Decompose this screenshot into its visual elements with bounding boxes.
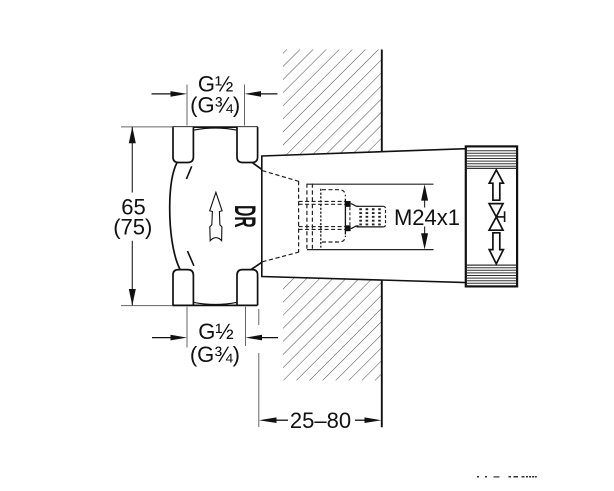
M24 thread top edge	[357, 205, 384, 207]
hidden bonnet thread scallop line	[320, 189, 322, 248]
25-80 right arrowhead	[365, 417, 382, 423]
G1/2 bottom: right arrow	[246, 335, 263, 341]
svg-text:(G¾): (G¾)	[190, 342, 240, 367]
G1/2 bottom: left arrow	[152, 337, 172, 339]
25-80 left arrowhead	[259, 417, 277, 423]
thread crest dashes	[361, 208, 380, 225]
svg-text:G½: G½	[198, 319, 233, 344]
M24x1 top reference line	[307, 183, 434, 185]
65(75) down arrowhead	[129, 289, 136, 306]
G1/2 top: right extension line	[244, 85, 246, 126]
flow direction arrow inside body	[210, 192, 222, 240]
M24 thread bottom edge	[357, 226, 384, 228]
hidden flange disc verticals	[306, 184, 308, 249]
25-80 dimension line left segment	[276, 419, 288, 421]
valve body left contour	[170, 163, 180, 270]
packing seal upper (solid)	[345, 201, 350, 207]
hidden line between seals	[349, 207, 351, 225]
valve stem tick	[496, 216, 504, 218]
right wedge to sleeve (bottom)	[251, 262, 262, 269]
25-80 dimension line right segment	[355, 419, 366, 421]
svg-text:(G¾): (G¾)	[190, 92, 240, 117]
hidden cone base	[298, 181, 300, 253]
bonnet face line	[344, 199, 346, 235]
G1/2 top: right arrow	[245, 91, 262, 97]
top hex chamfer arc	[193, 128, 237, 130]
top-left hex nut	[173, 127, 193, 162]
65(75) up arrowhead	[129, 127, 136, 144]
right wedge to sleeve (top)	[253, 163, 262, 170]
bottom-left hex nut	[173, 270, 193, 306]
hidden cone outline upper	[262, 171, 298, 182]
hot/up flow arrow symbol on cap	[489, 170, 503, 200]
M24x1 down arrowhead	[421, 233, 428, 249]
G1/2 top: left arrow	[152, 93, 172, 95]
bottom weld tick	[188, 251, 194, 266]
svg-text:25–80: 25–80	[290, 408, 351, 433]
collar bottom knurl ribs	[467, 265, 517, 283]
svg-text:DR: DR	[227, 205, 259, 228]
top-right hex nut	[237, 127, 258, 162]
hidden stem upper double line	[299, 200, 346, 202]
wall section hatch	[283, 50, 382, 381]
collar top knurl ribs	[467, 151, 517, 169]
protective sleeve (trapezoid)	[262, 149, 466, 283]
M24x1 bottom reference line	[307, 249, 434, 251]
svg-text:(75): (75)	[113, 214, 152, 239]
top weld tick	[186, 166, 191, 179]
M24x1 up arrowhead	[421, 184, 428, 200]
G1/2 top: left extension line	[186, 85, 188, 126]
protection cap collar body	[466, 146, 517, 286]
spindle neck lower	[351, 226, 359, 229]
hidden cone outline lower	[262, 252, 298, 262]
svg-text:M24x1: M24x1	[394, 205, 460, 230]
65(75) top reference line	[121, 126, 174, 128]
hidden bonnet top edge	[322, 190, 345, 197]
packing seal lower (solid)	[345, 225, 350, 231]
valve body top face	[173, 126, 258, 128]
G1/2 bottom: left extension line	[186, 307, 188, 348]
25-80 left extension line	[258, 309, 260, 325]
bottom-right hex nut	[237, 270, 258, 306]
M24x1 dimension line	[424, 199, 426, 208]
wall front face border line	[381, 50, 383, 428]
hidden stem lower double line	[299, 226, 346, 228]
hidden bonnet bottom edge	[322, 236, 345, 242]
65(75) bottom reference line	[121, 305, 191, 307]
cold/down flow arrow symbol on cap	[489, 233, 503, 264]
bottom hex chamfer arc	[193, 302, 237, 304]
spindle neck upper	[351, 204, 359, 207]
M24 thread right edge (hidden)	[383, 206, 385, 227]
65(75) dimension line	[131, 127, 133, 193]
valve bowtie symbol on cap	[489, 204, 503, 231]
G1/2 bottom: right extension line	[245, 307, 247, 346]
valve body bottom face	[173, 304, 258, 306]
tiny part number marks bottom right	[477, 476, 537, 478]
